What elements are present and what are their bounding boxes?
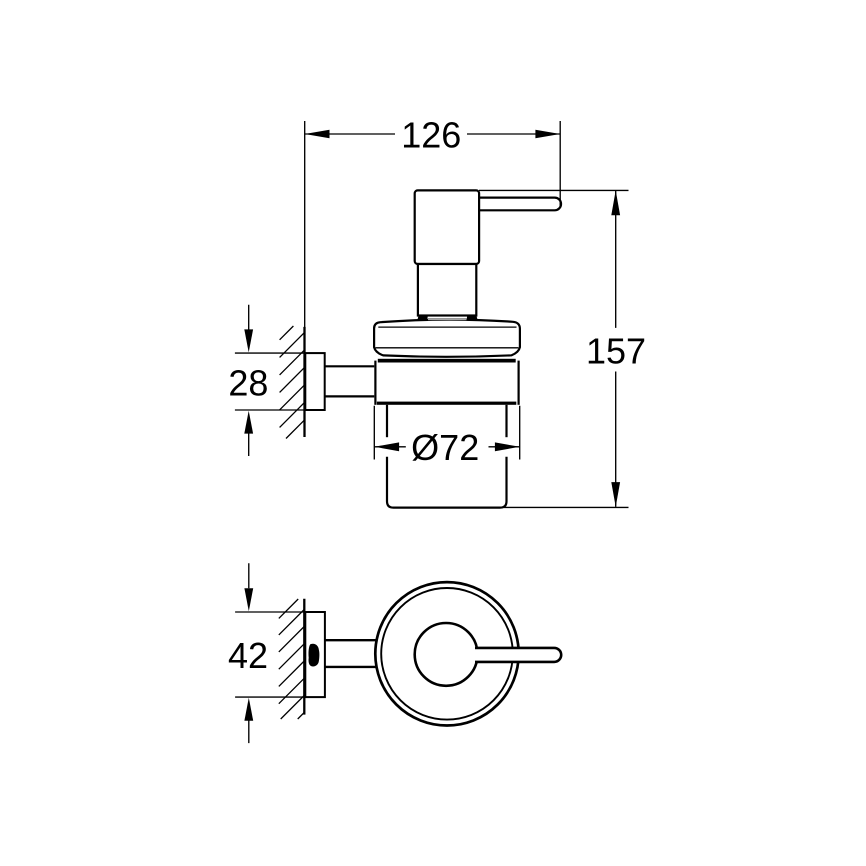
wall hatching (side view): [280, 326, 305, 439]
holder ring left edge: [374, 361, 376, 405]
extension line bottom of dimension 157: [504, 506, 629, 508]
holder ring right edge: [518, 361, 520, 405]
neck flare foot left: [417, 316, 428, 320]
svg-text:126: 126: [401, 114, 461, 155]
lid top edge hidden behind neck (grayed): [428, 317, 467, 320]
holder ring top edge: [378, 359, 516, 363]
wall ref line bottom (28): [235, 409, 325, 411]
mounting arm (side view): [325, 366, 376, 396]
holder ring body: [374, 359, 519, 405]
wall edge (top view): [303, 599, 305, 715]
holder ring bottom edge: [377, 402, 516, 405]
extension lines Ø72: [374, 406, 519, 460]
dimension line 126: [305, 133, 561, 135]
lid waist line: [376, 347, 519, 349]
neck flare foot right: [467, 316, 478, 320]
pump neck: [418, 264, 476, 316]
svg-text:28: 28: [228, 362, 268, 403]
arrowhead 126 left: [305, 130, 330, 139]
arrowhead 126 right: [535, 130, 560, 139]
holder ring inner circle: [381, 588, 513, 720]
arrowhead 157 top: [611, 190, 620, 215]
glass tumbler right wall upper: [505, 405, 507, 437]
wall ref line top (42): [235, 611, 325, 613]
wall ref line bottom (42): [235, 696, 325, 698]
extension line top of dimension 157: [479, 189, 629, 191]
mounting plate (top view): [305, 612, 325, 697]
glass tumbler left wall upper: [386, 405, 388, 437]
holder ring outer circle: [375, 582, 518, 725]
lid inner top line: [378, 326, 516, 328]
glass tumbler lower body: [387, 457, 507, 508]
arrowhead 42 bottom: [244, 698, 253, 721]
svg-text:42: 42: [228, 635, 268, 676]
arrowhead 42 top: [244, 588, 253, 611]
wall hatching (top view): [279, 599, 304, 719]
svg-text:157: 157: [586, 331, 646, 372]
screw hole scribble: [308, 644, 319, 667]
dimension line 157: [615, 190, 617, 507]
extension line right of 126 (down to spout tip): [559, 121, 561, 207]
arrowhead Ø72 left: [374, 442, 399, 451]
extension line left of dimension 126: [304, 121, 306, 330]
pump head (top view): [415, 623, 478, 686]
arrowhead 157 bottom: [611, 482, 620, 507]
arrowhead 28 top: [244, 329, 253, 352]
arrowhead 28 bottom: [244, 411, 253, 434]
pump head: [415, 190, 479, 264]
dimension line Ø72: [374, 446, 519, 448]
wall ref line top (28): [235, 352, 325, 354]
pump spout (side view): [480, 198, 562, 211]
dimension line 28: [248, 305, 250, 456]
svg-text:Ø72: Ø72: [411, 427, 479, 468]
mounting plate (side view): [305, 353, 324, 410]
pump spout (top view): [475, 648, 561, 662]
dispenser lid: [374, 320, 520, 357]
arrowhead Ø72 right: [495, 442, 520, 451]
dimension line 42: [248, 563, 250, 743]
wall edge (side view): [303, 327, 305, 437]
mounting arm (top view): [325, 640, 377, 667]
dimension 126: [305, 114, 561, 155]
